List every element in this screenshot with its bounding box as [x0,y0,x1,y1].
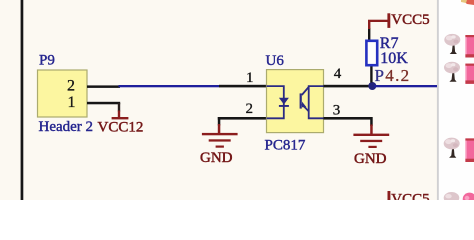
wire: net from P9.2 to U6.1 (blue segment) [119,85,220,87]
pink box A [465,35,474,58]
svg-text:GND: GND [200,150,233,166]
wire: resistor top to VCC5 [368,28,370,40]
phototransistor base bar [300,93,302,108]
pink box B [465,64,474,84]
svg-text:2: 2 [246,101,254,117]
decorative side panel thumbnails [444,0,474,205]
phototransistor emitter line [302,104,309,111]
LED cathode bar [279,105,289,107]
svg-text:VCC5: VCC5 [391,12,429,28]
svg-text:10K: 10K [380,50,408,67]
tree icon D (clipped bottom) [444,192,460,204]
phototransistor emitter arrow [302,102,307,108]
svg-text:4: 4 [334,66,342,82]
svg-text:2: 2 [67,78,75,95]
LED (inside U6) anode/cathode loop [267,86,284,118]
wire: left vertical bus wire [21,0,24,200]
optocoupler U6 body [267,70,324,133]
panel boundary line [437,0,439,200]
LED diode triangle [279,98,289,105]
schematic sheet background [0,0,438,200]
svg-text:VCC5: VCC5 [391,191,429,200]
tree icon C [444,138,460,158]
svg-text:PC817: PC817 [265,138,306,154]
svg-text:VCC12: VCC12 [98,119,144,135]
power port VCC5 (bottom, clipped) [388,191,391,200]
pink box D (clipped bottom) [463,193,474,206]
ground GND (right) [353,125,389,149]
power port VCC5 (top) [368,13,390,28]
pin: U6 pin 1 lead [219,85,267,88]
right side panel background [437,0,474,200]
tree icon A [444,34,460,54]
wire: resistor bottom to junction [370,66,372,83]
connector P9 body [38,70,88,117]
resistor R7 body [366,41,377,65]
pin: U6 pin 4 lead [324,85,370,88]
tree icon B [444,62,460,82]
pin: U6 pin 3 lead [324,117,372,120]
phototransistor (inside U6) collector/emitter bracket [309,86,324,118]
pin: P9 pin 2 stub [87,85,120,88]
svg-text:3: 3 [333,102,341,118]
pin: U6 pin 2 lead [218,117,267,120]
svg-text:U6: U6 [266,53,285,69]
phototransistor collector line [302,87,309,95]
svg-text:P9: P9 [39,53,55,69]
wire: node P4.2 to right edge (blue segment) [374,85,437,87]
svg-text:GND: GND [354,151,387,167]
pink box C [465,138,474,162]
svg-text:Header 2: Header 2 [39,119,94,135]
pin: P9 pin 1 stub [87,102,120,105]
svg-text:1: 1 [246,70,254,86]
ground GND (left) [202,124,238,148]
power port VCC12 [112,103,129,119]
junction dot at node P4.2 [368,82,376,90]
wire: U6.3 down to ground [370,117,373,126]
wire: U6.2 down to ground [218,117,221,126]
svg-text:P4.2: P4.2 [375,66,411,85]
svg-text:1: 1 [68,94,76,111]
corner blob top right [462,0,474,5]
